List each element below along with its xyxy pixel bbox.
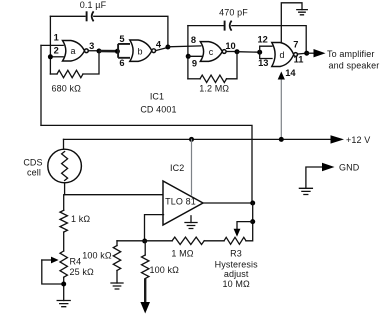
node: N1 divider junction (142, 239, 147, 244)
wire: pin 7 to top ground (281, 3, 302, 43)
wire: 470pF right lead to gate d output node (232, 26, 306, 53)
node: gate a output (pin 3) (97, 49, 102, 54)
resistor 100k to negative rail (144, 241, 146, 255)
wire: +12V rail (64, 138, 332, 140)
svg-text:GND: GND (339, 163, 360, 173)
capacitor C 0.1uF (86, 11, 88, 21)
NOR gate b (IC1) (130, 40, 152, 61)
svg-text:13: 13 (258, 58, 268, 68)
ground symbol (op-amp V-) (185, 223, 197, 229)
wire: 0.1uF right lead down to pin4 node (94, 16, 168, 46)
svg-text:Hysteresis: Hysteresis (215, 259, 259, 269)
svg-text:100 kΩ: 100 kΩ (150, 265, 180, 275)
ground symbol (R4) (57, 301, 70, 307)
svg-text:470 pF: 470 pF (219, 7, 248, 17)
node: op-amp output junction (250, 201, 255, 206)
wire: gate b input bracket pins 5 6 (118, 44, 130, 58)
svg-text:+12 V: +12 V (346, 135, 370, 145)
node: pin2 junction (48, 54, 53, 59)
wire: -input from node N1 (145, 215, 164, 241)
svg-text:R4: R4 (70, 257, 82, 267)
wire: R4 wiper return to bottom (42, 260, 64, 284)
svg-text:1 MΩ: 1 MΩ (171, 248, 193, 258)
svg-text:10: 10 (225, 41, 235, 51)
wire: 470pF left lead (188, 25, 224, 27)
wiper arrow R4 (42, 259, 52, 261)
wire: +input line to op-amp (65, 194, 164, 196)
svg-text:10 MΩ: 10 MΩ (223, 279, 250, 289)
svg-text:100 kΩ: 100 kΩ (82, 250, 112, 260)
wire: feedback from op-amp output to gate a pin 1 (41, 125, 252, 203)
node: rail to pin 14 (279, 137, 284, 142)
svg-text:cell: cell (27, 168, 41, 178)
wire: riser from cap through pin2 to 680k (net A) (49, 16, 51, 74)
node: rail to op-amp V+ (189, 137, 194, 142)
svg-text:TLO 81: TLO 81 (165, 197, 196, 207)
CDS cell (photoresistor) (48, 149, 82, 183)
svg-text:R3: R3 (230, 249, 242, 259)
svg-text:4: 4 (156, 40, 162, 50)
wire: gate d output to output node (298, 52, 307, 55)
svg-text:c: c (209, 47, 214, 57)
svg-text:0.1 µF: 0.1 µF (80, 0, 107, 10)
svg-text:1 kΩ: 1 kΩ (71, 214, 90, 224)
capacitor C 470pF (224, 21, 226, 31)
wire: gate d input bracket pins 12 13 (260, 46, 272, 58)
wire: node 10 to gate d input (237, 51, 260, 54)
svg-text:IC1: IC1 (150, 92, 164, 102)
svg-text:CDS: CDS (23, 158, 42, 168)
potentiometer R3 (224, 237, 246, 244)
svg-text:2: 2 (54, 45, 59, 55)
wire: N1 rail left to 100k (117, 240, 172, 242)
NOR gate c (IC1) (200, 42, 222, 62)
wire: pin 9 stub (188, 55, 203, 57)
svg-text:b: b (137, 46, 142, 56)
wire: 1M to R3 (204, 240, 224, 242)
svg-text:8: 8 (191, 35, 196, 45)
op-amp U IC2 TL081 (163, 181, 203, 225)
resistor 680k feedback (50, 73, 57, 75)
wire: 470pF left lead down through pin 9 to 1.2M (187, 26, 189, 79)
svg-text:1: 1 (54, 33, 59, 43)
wire + arrow: pin 14 power riser (280, 78, 282, 140)
wire: CDS bottom to +input node (64, 183, 66, 195)
resistor 1.2M feedback (188, 78, 200, 80)
wire: gate b output to node 4 (156, 47, 168, 50)
svg-text:14: 14 (285, 68, 296, 78)
node: gate b input junction (115, 49, 120, 54)
potentiometer R4 25k (60, 251, 67, 277)
svg-text:1.2 MΩ: 1.2 MΩ (199, 84, 229, 94)
wire: R4 bottom to ground (63, 277, 65, 300)
wire: pin 2 input stub (50, 56, 63, 58)
node: R3 wiper junction (250, 219, 255, 224)
svg-text:12: 12 (258, 35, 268, 45)
svg-text:a: a (70, 46, 75, 56)
NOR gate a (IC1) (63, 41, 85, 62)
svg-text:d: d (279, 50, 284, 60)
wire + arrow: GND flag (306, 167, 323, 188)
svg-text:5: 5 (119, 34, 124, 44)
svg-text:680 kΩ: 680 kΩ (51, 84, 81, 94)
svg-text:and speaker: and speaker (329, 61, 380, 71)
resistor 1k (63, 195, 65, 211)
node: gate d input junction (257, 50, 262, 55)
resistor 100k to ground (116, 241, 118, 246)
wire: 0.1uF cap left lead from pin2 node riser (50, 15, 85, 17)
wire: gate c output to node 10 (226, 51, 237, 53)
svg-text:To amplifier: To amplifier (327, 49, 374, 59)
wire + arrow: to amplifier (307, 52, 314, 54)
wire: V+ from rail (191, 139, 193, 195)
svg-text:CD 4001: CD 4001 (140, 105, 176, 115)
wiper arrow R3 (237, 222, 253, 229)
svg-text:11: 11 (294, 55, 304, 65)
svg-text:9: 9 (192, 59, 197, 69)
ground symbol (GND flag) (299, 188, 312, 194)
ground symbol (pin 7) (297, 10, 308, 15)
ground symbol (100k) (111, 283, 123, 289)
resistor 1M (172, 237, 204, 244)
node: pin 9 junction (186, 54, 191, 59)
svg-text:6: 6 (119, 58, 124, 68)
wire: node4 to gate c pin 8 (168, 45, 201, 48)
wire: node3 to gate b input (thick) (99, 50, 117, 53)
svg-text:adjust: adjust (224, 269, 249, 279)
wire: rail down to CDS cell (63, 139, 65, 150)
wire: pin1 drop to feedback rail (40, 45, 42, 125)
svg-text:IC2: IC2 (170, 163, 184, 173)
wire: op-amp output (203, 202, 253, 204)
NOR gate d (IC1) (272, 43, 294, 67)
node: R4 bottom junction (61, 282, 66, 287)
arrow: 100k down lead (144, 279, 146, 303)
wire: gate a output to node 3 (88, 50, 99, 52)
svg-text:7: 7 (293, 40, 298, 50)
node: pin 4 junction (165, 45, 170, 50)
svg-text:25 kΩ: 25 kΩ (70, 267, 94, 277)
wire: R3 right lead up (246, 203, 253, 241)
arrow: +12V (331, 135, 345, 143)
wire: pin 1 input stub (41, 44, 63, 46)
wire: V- to ground (190, 216, 192, 223)
node: gate d output (pins 7/11) (304, 51, 309, 56)
svg-text:3: 3 (89, 41, 94, 51)
node: gate c output (pin 10) (235, 49, 240, 54)
